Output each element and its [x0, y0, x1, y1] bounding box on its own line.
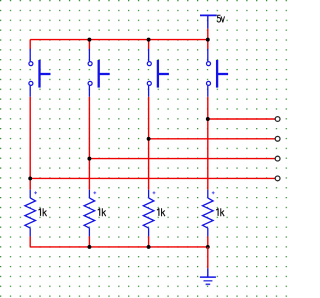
- power supply 5v: [200, 15, 225, 28]
- pin marker + of R2: [93, 192, 96, 194]
- value label 1k of R4: [216, 208, 218, 216]
- pushbutton switch S1: [29, 49, 51, 97]
- wire bus to S3 pin1: [148, 40, 150, 49]
- wire bus to S1 pin1: [29, 40, 31, 49]
- junction column 4 / output row: [206, 117, 210, 121]
- wire S4 pin2 down to resistor R4: [207, 97, 209, 190]
- pin marker + of R3: [153, 192, 156, 194]
- wire output row from column 3 to terminal: [149, 138, 276, 140]
- wire output row from column 1 to terminal: [30, 177, 275, 179]
- resistor R1 1k: [25, 190, 47, 237]
- wire S2 pin2 down to resistor R2: [88, 97, 90, 190]
- pushbutton switch S3: [147, 49, 169, 97]
- wire output row from column 2 to terminal: [89, 158, 275, 160]
- wire bus to S4 pin1: [207, 40, 209, 49]
- pin marker + of R4: [212, 192, 215, 194]
- junction column 2 / output row: [87, 157, 91, 161]
- wire R3 to bottom bus: [148, 236, 150, 247]
- junction top bus / S2: [87, 38, 91, 42]
- pushbutton switch S2: [88, 49, 110, 97]
- wire R2 to bottom bus: [88, 236, 90, 247]
- wire R4 to bottom bus: [207, 236, 209, 247]
- resistor R2 1k: [84, 190, 106, 237]
- junction bottom bus / R4 / ground: [206, 245, 210, 249]
- resistor R3 1k: [143, 190, 165, 237]
- wire top 5v bus: [30, 39, 208, 41]
- junction top bus / S3: [147, 38, 151, 42]
- terminal port output 4: [275, 176, 280, 181]
- value label 1k of R3: [157, 208, 159, 216]
- junction column 3 / output row: [147, 137, 151, 141]
- ground: [200, 268, 216, 284]
- wire bottom ground bus: [30, 246, 208, 248]
- value label 1k of R1: [39, 208, 41, 216]
- resistor R4 1k: [203, 190, 225, 237]
- wire bus to S2 pin1: [88, 40, 90, 49]
- junction column 1 / output row: [28, 176, 32, 180]
- wire R1 to bottom bus: [29, 236, 31, 247]
- junction bottom bus / R2: [87, 245, 91, 249]
- pin marker + of R1: [34, 192, 37, 194]
- wire output row from column 4 to terminal: [208, 118, 275, 120]
- terminal port output 2: [275, 136, 280, 141]
- wire bottom bus to ground: [207, 247, 209, 268]
- pushbutton switch S4: [207, 49, 229, 97]
- junction bottom bus / R3: [147, 245, 151, 249]
- wire S1 pin2 down to resistor R1: [29, 97, 31, 190]
- terminal port output 3: [275, 156, 280, 161]
- terminal port output 1: [275, 117, 280, 122]
- value label 1k of R2: [98, 208, 100, 216]
- wire 5v to top bus: [207, 29, 209, 40]
- wire S3 pin2 down to resistor R3: [148, 97, 150, 190]
- junction top bus / 5v / S4: [206, 38, 210, 42]
